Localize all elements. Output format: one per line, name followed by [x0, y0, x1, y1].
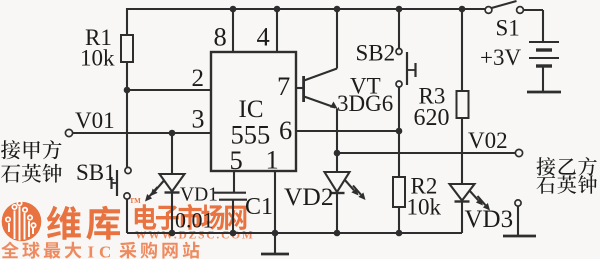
svg-text:VD2: VD2	[284, 182, 334, 211]
terminal V01	[65, 129, 72, 136]
wire pin8	[232, 9, 234, 52]
ground	[274, 233, 276, 253]
transistor Q1 VT	[302, 76, 305, 102]
svg-text:10k: 10k	[80, 46, 115, 71]
watermark logo	[2, 202, 42, 242]
svg-text:SB1: SB1	[76, 160, 116, 185]
pushbutton SB2	[398, 9, 400, 49]
wire pin4	[276, 9, 278, 52]
junction VD2 bottom	[334, 230, 341, 237]
led VD2	[336, 153, 338, 172]
watermark 电子市场网	[135, 204, 247, 230]
svg-text:VD3: VD3	[465, 206, 514, 233]
junction emitter VD2 V02	[334, 150, 341, 157]
led VD2 arrows	[345, 180, 354, 191]
svg-text:S1: S1	[496, 16, 520, 41]
svg-text:C1: C1	[245, 194, 273, 220]
svg-text:5: 5	[230, 145, 243, 175]
resistor R3	[461, 9, 463, 91]
terminal V02	[515, 149, 522, 156]
switch S1	[485, 7, 492, 14]
wire V02	[337, 152, 515, 154]
svg-text:C: C	[99, 243, 111, 259]
led VD1 arrows	[155, 181, 164, 191]
junction C1 bottom	[230, 230, 237, 237]
svg-text:3DG6: 3DG6	[337, 91, 393, 116]
svg-text:TM: TM	[130, 197, 142, 205]
terminal ground 乙	[515, 200, 521, 206]
wire pin2	[127, 89, 211, 91]
junction VD1 bottom	[169, 230, 176, 237]
svg-text:1: 1	[266, 145, 279, 175]
svg-text:4: 4	[257, 22, 270, 52]
svg-text:6: 6	[279, 115, 292, 145]
wire SB1 to ground rail	[126, 199, 128, 233]
node 石英钟 label left	[1, 164, 62, 183]
svg-text:10k: 10k	[407, 195, 442, 220]
junction pin1 bottom	[272, 230, 279, 237]
watermark 维库	[47, 206, 120, 240]
node 接乙方 label	[536, 157, 596, 176]
wire top rail	[126, 8, 485, 10]
wire pin6	[296, 130, 399, 132]
svg-text:+3V: +3V	[480, 45, 521, 70]
wire pin3 V01	[73, 132, 211, 134]
capacitor C1	[233, 171, 235, 192]
node 接甲方 label	[1, 140, 62, 159]
wire pin1	[274, 171, 276, 233]
junction SB2 R2 pin6	[396, 128, 403, 135]
junction SB2 top	[396, 6, 403, 13]
junction pin4 top	[274, 6, 281, 13]
wire bottom rail	[127, 232, 462, 234]
led VD3 arrows	[469, 190, 478, 200]
svg-text:V02: V02	[468, 128, 508, 153]
IC U1 555 timer box	[211, 52, 296, 171]
junction VD1 top	[169, 130, 176, 137]
junction pin8 top	[230, 6, 237, 13]
battery +3V	[529, 41, 559, 43]
junction R2 bottom	[396, 230, 403, 237]
node 石英钟 label right	[537, 175, 597, 194]
led VD1	[171, 133, 173, 174]
wire pin7	[296, 87, 303, 89]
svg-text:0.01: 0.01	[175, 208, 214, 233]
svg-text:7: 7	[277, 71, 290, 101]
resistor R1	[126, 8, 128, 35]
svg-text:VD1: VD1	[180, 185, 218, 206]
pushbutton SB1	[125, 167, 131, 173]
watermark 采购网站	[119, 242, 199, 259]
resistor R2	[398, 131, 400, 177]
junction R1 pin2	[124, 87, 131, 94]
led VD3	[450, 184, 475, 201]
junction VT collector top	[334, 6, 341, 13]
watermark 全球最大	[1, 242, 81, 259]
svg-text:3: 3	[192, 105, 205, 134]
svg-text:SB2: SB2	[356, 41, 396, 66]
svg-text:620: 620	[414, 105, 450, 131]
svg-text:2: 2	[192, 65, 205, 92]
svg-text:I: I	[88, 243, 95, 259]
junction R3 top	[459, 6, 466, 13]
svg-text:V01: V01	[75, 108, 115, 133]
svg-text:8: 8	[214, 22, 227, 52]
